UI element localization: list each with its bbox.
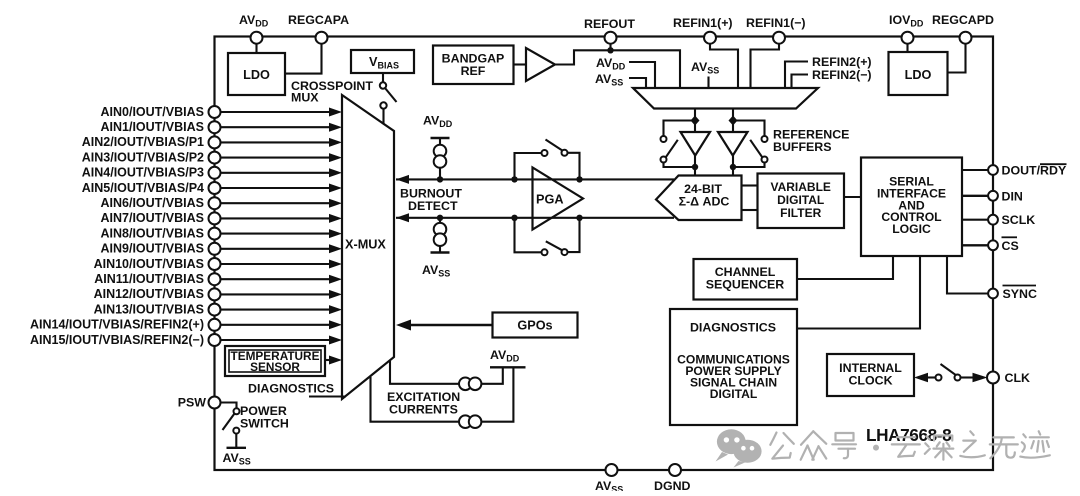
BANDGAP REF box <box>433 46 514 85</box>
svg-text:X-MUX: X-MUX <box>345 238 386 252</box>
svg-text:SWITCH: SWITCH <box>240 417 289 431</box>
svg-text:REFIN1(+): REFIN1(+) <box>673 16 733 30</box>
svg-text:AIN0/IOUT/VBIAS: AIN0/IOUT/VBIAS <box>101 105 205 119</box>
pin AIN2 with wire into X-MUX <box>82 135 342 149</box>
wire serial to DOUT pin <box>962 169 988 171</box>
svg-text:DOUT/RDY: DOUT/RDY <box>1002 164 1067 178</box>
wire ref mux to buffer 2 <box>732 109 734 133</box>
junction dots PGA left <box>511 176 517 182</box>
svg-text:AIN8/IOUT/VBIAS: AIN8/IOUT/VBIAS <box>101 226 205 240</box>
wire GPOs to X-MUX <box>396 320 493 331</box>
label REFIN2(+) with wire to ref mux <box>785 55 872 88</box>
wire filter to serial interface <box>844 196 861 198</box>
wire buffer to REFOUT node and reference mux <box>555 50 680 88</box>
pin AIN9 with wire into X-MUX <box>101 242 343 256</box>
svg-text:CURRENTS: CURRENTS <box>389 403 458 417</box>
wire REFOUT stub <box>609 42 611 50</box>
pin REFOUT <box>584 17 635 44</box>
clock switch SW-CLK <box>914 364 988 382</box>
junction dot buffer 2 out <box>730 164 736 170</box>
bypass switch left of buffer 1 <box>661 121 696 168</box>
junction dot buffer 1 out <box>692 164 698 170</box>
pin AIN12 with wire into X-MUX <box>94 287 342 301</box>
svg-text:REF: REF <box>461 64 486 78</box>
svg-text:MUX: MUX <box>291 91 319 105</box>
diagnostics input stub into X-MUX bottom <box>309 395 346 397</box>
svg-text:BUFFERS: BUFFERS <box>773 140 832 154</box>
svg-text:CLK: CLK <box>1005 371 1031 385</box>
svg-text:DIGITAL: DIGITAL <box>777 193 824 207</box>
svg-text:FILTER: FILTER <box>780 206 821 220</box>
pin IOVDD <box>889 13 924 44</box>
switch SW-VBIAS <box>380 82 386 88</box>
watermark separator dot <box>873 445 879 451</box>
svg-text:REFIN1(−): REFIN1(−) <box>746 16 806 30</box>
watermark character shen <box>925 436 954 460</box>
wire diagnostics block to serial <box>797 256 920 329</box>
pin AIN0 with wire into X-MUX <box>101 105 343 119</box>
watermark character zhong <box>801 431 827 459</box>
LDO U5 (digital) <box>889 52 948 95</box>
pin AVSS (bottom) <box>595 464 623 495</box>
wire analog rail bottom (X-MUX to ADC) <box>396 213 674 222</box>
current source I-EXC1 <box>459 378 481 391</box>
svg-text:REGCAPA: REGCAPA <box>288 13 349 27</box>
svg-text:CLOCK: CLOCK <box>848 374 892 388</box>
watermark character yun <box>892 437 920 457</box>
svg-text:AIN7/IOUT/VBIAS: AIN7/IOUT/VBIAS <box>101 211 205 225</box>
watermark character gong <box>770 433 794 459</box>
op-amp reference buffer 1 <box>681 132 711 156</box>
pin REFIN1(+) with wire to ref mux <box>673 16 738 88</box>
junction dot top rail at burnout <box>437 176 443 182</box>
svg-text:CS: CS <box>1002 239 1019 253</box>
junction dots PGA right <box>576 176 582 182</box>
watermark character hao <box>832 433 856 458</box>
VARIABLE DIGITAL FILTER box <box>758 174 845 229</box>
svg-text:AIN5/IOUT/VBIAS/P4: AIN5/IOUT/VBIAS/P4 <box>82 181 204 195</box>
INTERNAL CLOCK box <box>827 354 914 396</box>
AVSS rail symbol under power switch <box>223 448 251 467</box>
svg-text:DIGITAL: DIGITAL <box>710 387 758 401</box>
wire excitation current 2 to AVDD rail <box>481 368 513 422</box>
svg-text:AIN6/IOUT/VBIAS: AIN6/IOUT/VBIAS <box>101 196 205 210</box>
pin CLK <box>987 371 1030 385</box>
svg-text:PSW: PSW <box>178 396 207 410</box>
VBIAS box <box>351 50 414 73</box>
wire ADC to filter (top stub) <box>742 184 758 186</box>
wire serial to CS pin <box>962 244 988 246</box>
label AVSS (center, ref mux) with stub <box>691 60 719 88</box>
junction dot bottom rail at burnout <box>437 215 443 221</box>
wire REGCAPA to LDO <box>285 38 322 74</box>
pin CS <box>988 237 1019 253</box>
op-amp reference buffer 2 <box>718 132 748 156</box>
current source I-burnout-top <box>434 138 447 179</box>
wire excitation current 1 to AVDD rail <box>481 368 502 384</box>
junction node REFOUT <box>607 47 613 53</box>
wire serial to DIN pin <box>962 195 988 197</box>
pin REGCAPD <box>932 13 994 44</box>
pin AIN6 with wire into X-MUX <box>101 196 343 210</box>
pin AIN15 with wire into X-MUX <box>30 333 342 347</box>
LDO U2 (analog) <box>228 53 285 95</box>
label AVDD (ref mux input) with wire <box>596 56 655 88</box>
pin REFIN1(-) with wire to ref mux <box>746 16 806 88</box>
svg-text:DIAGNOSTICS: DIAGNOSTICS <box>248 382 334 396</box>
ADC U4 24-bit sigma-delta <box>656 176 742 221</box>
svg-text:VARIABLE: VARIABLE <box>770 180 830 194</box>
reference mux trapezoid <box>633 88 818 109</box>
pin AIN8 with wire into X-MUX <box>101 226 343 240</box>
svg-text:AIN9/IOUT/VBIAS: AIN9/IOUT/VBIAS <box>101 242 205 256</box>
svg-text:AIN4/IOUT/VBIAS/P3: AIN4/IOUT/VBIAS/P3 <box>82 166 204 180</box>
pin DOUT/RDY <box>988 164 1067 178</box>
op-amp buffer U3 (refout buffer) <box>526 48 555 81</box>
wire ref mux to buffer 1 <box>694 109 696 133</box>
pin AIN10 with wire into X-MUX <box>94 257 342 271</box>
svg-text:AIN12/IOUT/VBIAS: AIN12/IOUT/VBIAS <box>94 287 204 301</box>
svg-text:AIN15/IOUT/VBIAS/REFIN2(−): AIN15/IOUT/VBIAS/REFIN2(−) <box>30 333 204 347</box>
pin AIN13 with wire into X-MUX <box>94 302 342 316</box>
svg-text:REGCAPD: REGCAPD <box>932 13 994 27</box>
svg-text:AIN1/IOUT/VBIAS: AIN1/IOUT/VBIAS <box>101 120 205 134</box>
power switch SW-PSW <box>221 403 240 448</box>
watermark character ji <box>1020 431 1050 457</box>
pin AIN1 with wire into X-MUX <box>101 120 343 134</box>
pin AIN4 with wire into X-MUX <box>82 166 342 180</box>
svg-text:AIN11/IOUT/VBIAS: AIN11/IOUT/VBIAS <box>94 272 204 286</box>
svg-text:SCLK: SCLK <box>1002 213 1036 227</box>
svg-text:GPOs: GPOs <box>517 319 552 333</box>
current source I-burnout-bottom <box>434 218 447 253</box>
junction diamond node B <box>729 116 738 126</box>
wire buffer 2 output <box>732 156 734 176</box>
svg-text:AIN13/IOUT/VBIAS: AIN13/IOUT/VBIAS <box>94 302 204 316</box>
svg-text:AIN10/IOUT/VBIAS: AIN10/IOUT/VBIAS <box>94 257 204 271</box>
wire channel sequencer to serial <box>797 256 893 279</box>
svg-text:SENSOR: SENSOR <box>250 360 300 374</box>
wire buffer 1 output <box>694 156 696 176</box>
svg-text:SEQUENCER: SEQUENCER <box>706 278 785 292</box>
svg-text:SYNC: SYNC <box>1003 287 1037 301</box>
chip outer border frame <box>215 37 994 471</box>
svg-text:PGA: PGA <box>536 193 564 207</box>
watermark character wu <box>990 437 1018 458</box>
SERIAL INTERFACE AND CONTROL LOGIC box <box>861 158 962 257</box>
op-amp PGA <box>533 168 584 230</box>
AVDD rail symbol for excitation currents <box>490 348 526 367</box>
pin SYNC <box>988 286 1037 302</box>
wire serial to SYNC pin <box>947 256 988 294</box>
temperature sensor box (double border) <box>225 346 325 376</box>
wire VBIAS to switch <box>382 73 384 82</box>
wire IOVDD to LDO digital <box>906 38 908 52</box>
pin DIN <box>988 189 1023 203</box>
watermark wechat icon <box>716 429 762 467</box>
wire X-MUX to excitation current 1 <box>390 361 459 384</box>
X-MUX <box>342 95 394 399</box>
pin PSW <box>178 396 221 410</box>
svg-text:REFIN2(−): REFIN2(−) <box>812 68 872 82</box>
wire ADC to filter (bottom stub) <box>742 209 758 211</box>
pin AIN5 with wire into X-MUX <box>82 181 342 195</box>
svg-text:AIN14/IOUT/VBIAS/REFIN2(+): AIN14/IOUT/VBIAS/REFIN2(+) <box>30 318 204 332</box>
pin AIN11 with wire into X-MUX <box>94 272 342 286</box>
pin AIN3 with wire into X-MUX <box>82 150 342 164</box>
pin AIN14 with wire into X-MUX <box>30 318 342 332</box>
wire bandgap to buffer <box>514 63 527 65</box>
wire temperature sensor to X-MUX <box>325 356 342 365</box>
DIAGNOSTICS block box <box>670 309 797 425</box>
wire analog rail top (X-MUX to ADC) <box>396 175 674 184</box>
svg-text:REFOUT: REFOUT <box>584 17 635 31</box>
svg-text:REFIN2(+): REFIN2(+) <box>812 55 872 69</box>
svg-text:DIAGNOSTICS: DIAGNOSTICS <box>690 321 776 335</box>
svg-text:AIN2/IOUT/VBIAS/P1: AIN2/IOUT/VBIAS/P1 <box>82 135 204 149</box>
bypass switch right of buffer 2 <box>733 121 768 168</box>
svg-text:DGND: DGND <box>654 479 691 491</box>
PGA bypass switch top <box>515 140 580 180</box>
label REFIN2(-) with wire to ref mux <box>792 68 872 88</box>
pin SCLK <box>988 213 1035 227</box>
label REFERENCE BUFFERS <box>773 128 849 155</box>
label BURNOUT DETECT <box>400 187 462 214</box>
wire AVDD to LDO <box>255 38 257 53</box>
svg-text:DETECT: DETECT <box>408 199 458 213</box>
current source I-EXC2 <box>459 415 481 428</box>
pin AIN7 with wire into X-MUX <box>101 211 343 225</box>
pin DGND (bottom) <box>654 464 691 493</box>
svg-text:DIN: DIN <box>1002 189 1023 203</box>
wire X-MUX to excitation current 2 <box>371 377 460 422</box>
svg-text:AIN3/IOUT/VBIAS/P2: AIN3/IOUT/VBIAS/P2 <box>82 150 204 164</box>
AVDD rail symbol above burnout source <box>423 114 453 139</box>
wire REGCAPD to LDO digital <box>948 38 966 73</box>
GPOs box <box>493 313 578 338</box>
AVSS rail symbol below burnout source <box>422 253 450 279</box>
svg-text:Σ-Δ ADC: Σ-Δ ADC <box>679 195 730 209</box>
PGA bypass switch bottom <box>515 218 580 256</box>
svg-text:LDO: LDO <box>243 68 270 82</box>
label AVSS (ref mux input) with wire <box>595 72 646 88</box>
CHANNEL SEQUENCER box <box>694 259 798 300</box>
wire switch to X-MUX <box>382 109 384 125</box>
pin REGCAPA <box>316 32 328 44</box>
label EXCITATION CURRENTS <box>387 390 460 417</box>
wire serial to SCLK pin <box>962 219 988 221</box>
junction diamond node A <box>691 116 700 126</box>
watermark character zhi <box>960 431 985 457</box>
pin AVDD <box>251 32 263 44</box>
svg-text:LDO: LDO <box>905 68 932 82</box>
svg-text:LOGIC: LOGIC <box>892 222 931 236</box>
